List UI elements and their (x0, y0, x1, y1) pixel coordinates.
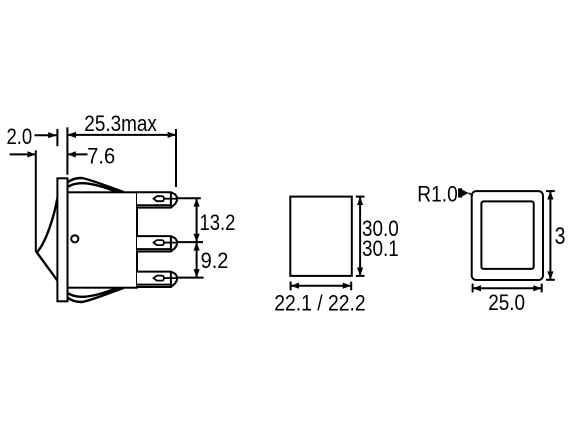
arrowhead 30 bottom (points down) (357, 268, 363, 276)
dim line 2.0 (35, 134, 57, 136)
tick bezel bottom-left (472, 284, 474, 293)
arrowhead 9.2 top (points up) (194, 242, 200, 250)
housing bottom hump inner arc (68, 288, 117, 297)
svg-text:2.0: 2.0 (7, 126, 33, 150)
housing top hump outer arc (68, 178, 124, 192)
arrowhead 9.2 bottom (points down) (194, 269, 200, 277)
extension line terminal 1 centerline (177, 197, 201, 199)
svg-text:13.2: 13.2 (200, 211, 236, 235)
front bezel outline (right view) (472, 191, 543, 280)
arrowhead 25.3max left (points left) (68, 132, 76, 138)
tick cutout left (290, 282, 292, 291)
arrowhead 7.6 left (points right) (27, 151, 35, 157)
dim line 25.0 (473, 287, 542, 289)
svg-text:3: 3 (555, 222, 566, 249)
pivot pin circle (71, 235, 78, 242)
extension line: rocker front (35, 150, 37, 252)
terminal 1 (top faston tab) (137, 192, 177, 207)
extension line terminal 2 centerline (177, 241, 203, 243)
arrowhead 13.2 bottom (points down) (194, 234, 200, 242)
dim line 25.3max (68, 134, 177, 136)
svg-text:7.6: 7.6 (87, 145, 115, 169)
extension line: body front face (66, 127, 68, 175)
tick cutout top (356, 196, 365, 198)
dim line 13.2 (196, 198, 198, 242)
panel cutout rectangle (middle view) (290, 197, 352, 276)
tick bezel top-right (546, 190, 555, 192)
svg-text:9.2: 9.2 (201, 249, 229, 273)
rocker actuator (side view) (37, 198, 58, 281)
housing top hump inner arc (68, 183, 117, 192)
tick bezel bottom-right (541, 284, 543, 293)
R1.0 leader arrow (462, 190, 469, 197)
arrowhead 25.0 right (points right) (533, 285, 541, 291)
dim line 22.1/22.2 (291, 285, 352, 287)
R1.0 leader tail (469, 193, 473, 196)
terminal 2 (middle faston tab) (137, 236, 177, 251)
arrowhead 7.6 right (points left) (67, 151, 75, 157)
arrowhead 3x bottom (points down) (547, 271, 553, 279)
tick cutout right (350, 282, 352, 291)
svg-text:25.3max: 25.3max (84, 112, 157, 137)
arrowhead 25.3max right (points right) (168, 132, 176, 138)
dim line 7.6 right tail (67, 153, 87, 155)
arrowhead 22 right (points right) (343, 283, 351, 289)
dim line 9.2 (196, 242, 198, 278)
arrowhead 22 left (points left) (291, 283, 299, 289)
switch body (side view) (68, 192, 138, 287)
arrowhead 13.2 top (points up) (194, 198, 200, 206)
arrowhead 25.0 left (points left) (473, 285, 481, 291)
svg-text:30.1: 30.1 (362, 237, 399, 262)
svg-text:25.0: 25.0 (488, 291, 525, 316)
arrowhead 3x top (points up) (547, 191, 553, 199)
arrowhead 30 top (points up) (357, 197, 363, 205)
tick bezel bottom-right-side (546, 279, 555, 281)
dim line 30.0/30.1 (359, 197, 361, 276)
svg-text:22.1 / 22.2: 22.1 / 22.2 (274, 291, 365, 315)
tick cutout bottom (356, 275, 365, 277)
dim line 7.6 left tail (10, 153, 36, 155)
dim line 3x (right side) (549, 191, 551, 280)
extension line: terminal tips (175, 129, 177, 187)
extension line terminal 3 centerline (177, 277, 204, 279)
tick: flange front face (2.0 dim left limit) (56, 129, 58, 146)
bezel opening (right view) (481, 201, 533, 269)
housing bottom hump outer arc (68, 288, 124, 302)
svg-text:R1.0: R1.0 (417, 182, 457, 207)
arrowhead 2.0 (points right) (48, 132, 56, 138)
flange / bezel plate (side view) (57, 178, 67, 301)
terminal 3 (bottom faston tab) (137, 272, 177, 287)
